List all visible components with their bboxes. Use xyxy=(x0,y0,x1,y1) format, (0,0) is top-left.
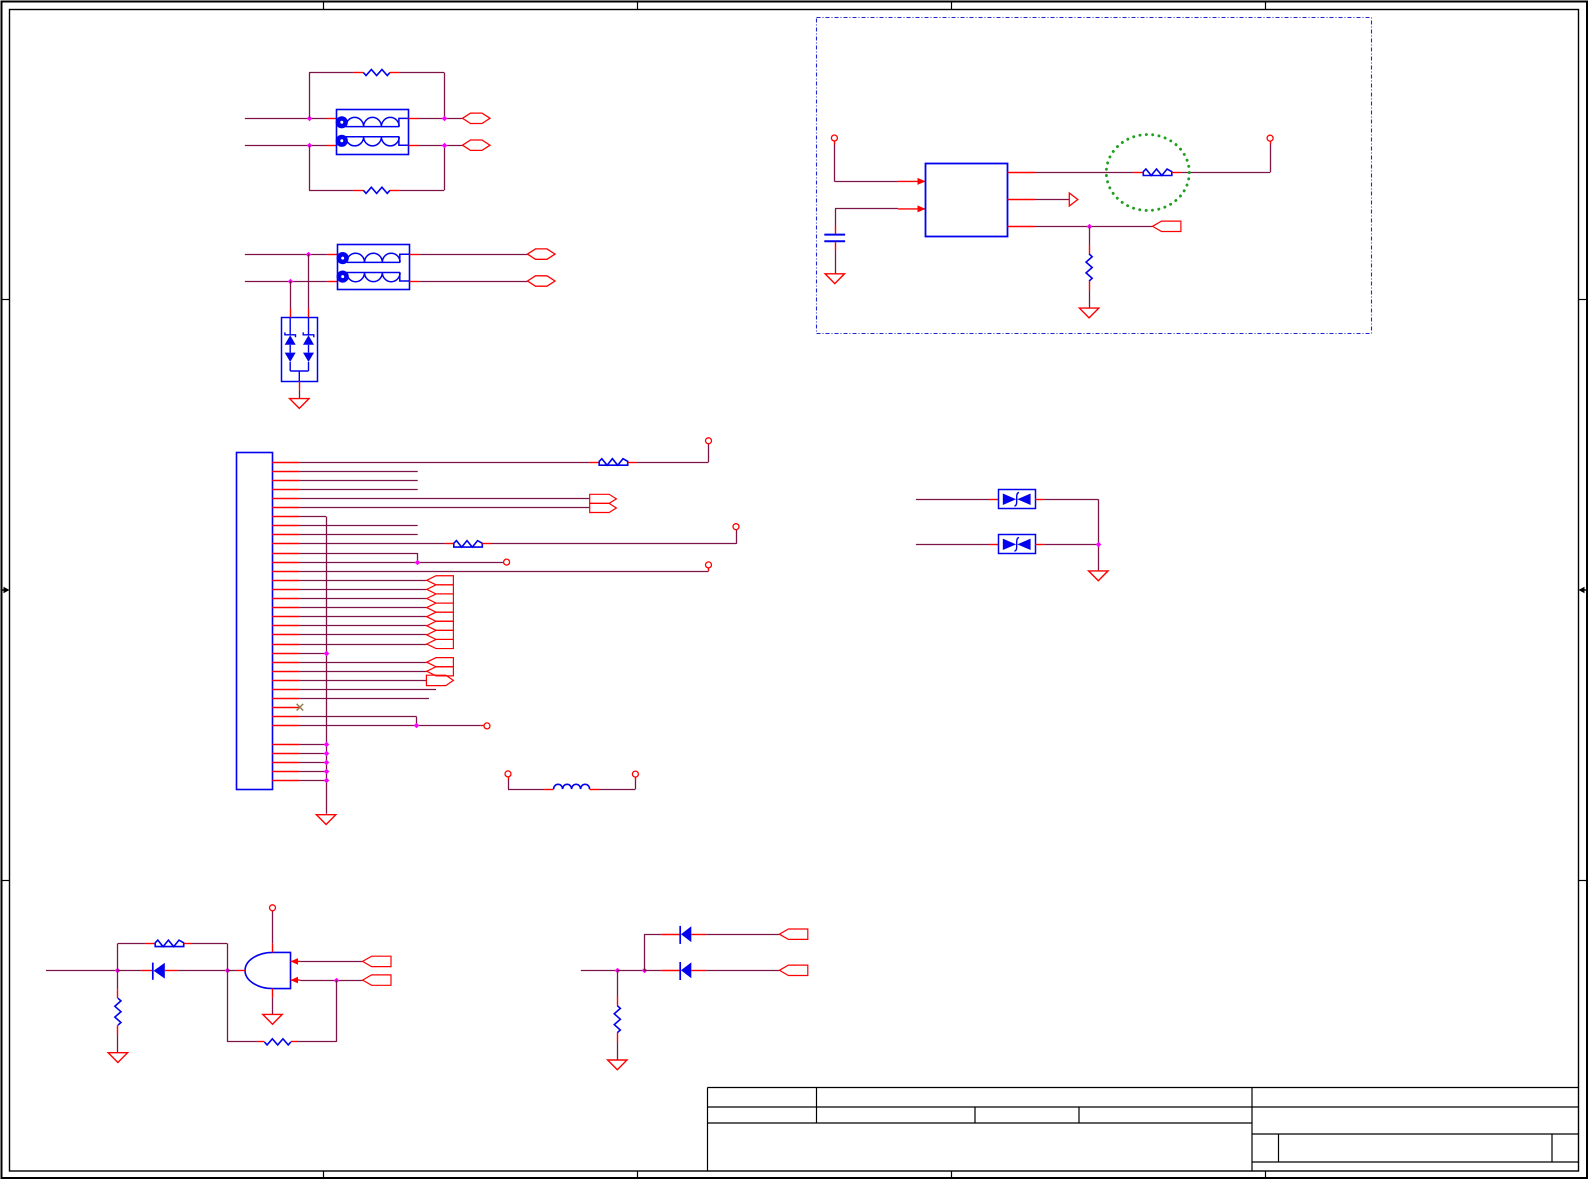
wire pin21 to flag xyxy=(300,644,427,646)
wire top rail right xyxy=(192,943,227,945)
ground (C1) xyxy=(825,274,844,284)
pin U2 in2 (arrow) xyxy=(291,977,301,984)
pin stub J1 pin35 xyxy=(272,771,300,773)
border zone tick bottom x=637.5 xyxy=(637,1171,639,1179)
wire net B1 left (top) xyxy=(245,254,328,256)
junction bus pin34 xyxy=(324,760,330,766)
wire in2 to tag xyxy=(300,980,362,982)
wire net B2 left (bottom) xyxy=(245,281,328,283)
highlight circle (green dotted) xyxy=(1106,135,1189,211)
wire TVS1 left xyxy=(916,499,989,501)
wire pin10 run xyxy=(300,543,446,545)
wire pin30 run xyxy=(300,725,481,727)
wire up to circle port xyxy=(708,444,710,462)
wire up to circle xyxy=(635,780,637,789)
wire B2 down to TVS xyxy=(290,281,292,309)
wire feedback up xyxy=(227,971,229,1042)
border zone tick bottom x=951.5 xyxy=(951,1171,953,1179)
pin stub J1 pin32 xyxy=(272,744,300,746)
wire net A2 left (bottom) xyxy=(245,145,327,147)
resistor R6 xyxy=(614,1006,620,1033)
wire to gate output xyxy=(227,970,237,972)
wire T1 out top xyxy=(419,118,463,120)
wire pin9 stub run xyxy=(300,534,418,536)
port circle gate vcc xyxy=(270,905,276,911)
port circle OUT1 xyxy=(1267,135,1273,141)
wire pin13 run xyxy=(300,571,709,573)
wire right loop lower xyxy=(444,145,446,190)
wire pin35 to bus xyxy=(300,771,326,773)
pin stub R3 top xyxy=(1089,245,1091,254)
wire pin20 to flag xyxy=(300,634,427,636)
port P3 (hexagon) xyxy=(528,249,556,259)
pin stub T1 pin1 xyxy=(327,118,337,120)
junction gate out xyxy=(225,968,231,974)
border zone tick bottom x=323.5 xyxy=(323,1171,325,1179)
pin stub J1 pin6 xyxy=(272,507,300,509)
pin stub R6 bottom xyxy=(617,1033,619,1042)
wire pin26 stub run xyxy=(300,689,436,691)
pin stub J1 pin33 xyxy=(272,753,300,755)
border center arrow right xyxy=(1579,587,1588,594)
pin stub R2 right xyxy=(390,190,399,192)
border zone tick right y=299.5 xyxy=(1579,299,1588,301)
pin stub circle gate xyxy=(272,910,274,912)
offpage flag in 3 xyxy=(427,594,454,603)
pin stub J1 pin15 xyxy=(272,589,300,591)
pin stub J1 pin4 xyxy=(272,489,300,491)
port tag net5 xyxy=(426,675,453,685)
pin stub circle K29 xyxy=(481,725,484,727)
wire gate to ground xyxy=(272,998,274,1015)
wire to D4 xyxy=(118,970,142,972)
resistor R4 xyxy=(115,998,121,1025)
transformer T1 (common-mode choke) xyxy=(336,110,409,155)
no-connect X pin28 xyxy=(297,704,304,711)
wire to D5 xyxy=(644,934,661,936)
pin U2 top xyxy=(272,943,274,952)
pin stub T2 pin2 xyxy=(327,281,337,283)
wire TVS2 left xyxy=(916,544,989,546)
pin stub C1 top xyxy=(835,226,837,234)
wire pin14 to flag xyxy=(300,580,427,582)
wire to R2 xyxy=(309,190,354,192)
pin stub J1 pin26 xyxy=(272,689,300,691)
out arrow symbol xyxy=(1069,193,1078,206)
wire pin23 to flag xyxy=(300,662,427,664)
wire pin8 stub run xyxy=(300,525,418,527)
border zone tick bottom x=1265.0 xyxy=(1265,1171,1267,1179)
port circle L1 left xyxy=(505,771,511,777)
pin stub T2 pin4 xyxy=(409,254,419,256)
diode D5 xyxy=(680,926,691,944)
wire up to top rail xyxy=(117,943,119,970)
wire to branch xyxy=(617,970,644,972)
port P2 (hexagon) xyxy=(463,140,491,150)
wire pin19 to flag xyxy=(300,625,427,627)
pin stub J1 pin14 xyxy=(272,580,300,582)
resistor R5 xyxy=(264,1039,290,1045)
pin U2 bottom xyxy=(272,989,274,998)
ground (D1) xyxy=(290,399,309,409)
pin stub D6 right xyxy=(661,970,679,972)
wire top rail down xyxy=(227,943,229,970)
wire pin2 stub run xyxy=(300,471,418,473)
TVS diode array D1 xyxy=(282,317,318,381)
pin stub T1 pin2 xyxy=(327,145,337,147)
ground (bus) xyxy=(316,815,335,825)
ground bus vertical xyxy=(326,517,328,814)
wire C1 to ground xyxy=(835,250,837,274)
port tag OUT3 xyxy=(1153,221,1181,231)
wire pin24 to flag xyxy=(300,671,427,673)
pin stub D1 pin1 xyxy=(290,309,292,318)
pin stub TVS1 right xyxy=(1035,499,1044,501)
border center arrow left xyxy=(2,587,10,594)
wire pin3 stub run xyxy=(300,480,418,482)
fuse/resistor F2 xyxy=(599,459,628,466)
wire out1 to F1 xyxy=(1035,172,1134,174)
pin stub J1 pin12 xyxy=(272,562,300,564)
wire down to L1 row xyxy=(508,780,510,789)
resistor R2 xyxy=(363,187,389,193)
pin stub J1 pin3 xyxy=(272,480,300,482)
port circle L1 right xyxy=(632,771,638,777)
wire to U1 in1 xyxy=(834,181,898,183)
offpage flag in 10 xyxy=(427,667,454,676)
offpage flag in 7 xyxy=(427,630,454,639)
pin stub F1 right xyxy=(1172,172,1181,174)
port circle net1 xyxy=(706,438,712,444)
port circle net6 xyxy=(484,723,490,729)
junction bus pin35 xyxy=(324,769,330,775)
wire D6 to tag xyxy=(706,970,779,972)
wire TVS1 to corner xyxy=(1044,499,1098,501)
junction in2/feedback xyxy=(334,978,340,984)
pin stub R5 left xyxy=(257,1041,264,1043)
pin stub U1 out1 xyxy=(1008,172,1036,174)
pin stub D5 right xyxy=(661,934,679,936)
wire D5 to tag xyxy=(706,934,779,936)
port P4 (hexagon) xyxy=(528,276,556,286)
junction branch xyxy=(642,968,648,974)
junction pin29/pin30 xyxy=(414,723,420,729)
diode D6 xyxy=(680,962,691,980)
pin stub D5 left xyxy=(691,934,706,936)
border zone tick right y=880.5 xyxy=(1579,880,1588,882)
pin stub J1 pin2 xyxy=(272,471,300,473)
pin stub TVS1 left xyxy=(989,499,998,501)
pin stub circle K11 xyxy=(503,562,505,564)
wire F1 to OUT1 xyxy=(1181,172,1270,174)
pin stub F4 right xyxy=(184,943,192,945)
pin stub R5 right xyxy=(291,1041,298,1043)
border zone tick left y=299.5 xyxy=(2,299,10,301)
wire pin27 stub run xyxy=(300,698,429,700)
wire R1 to right loop xyxy=(399,72,444,74)
pin stub J1 pin22 xyxy=(272,653,300,655)
junction bus pin36 xyxy=(324,778,330,784)
pin stub T2 pin1 xyxy=(327,254,337,256)
offpage flag in 1 xyxy=(427,576,454,585)
IC U1 xyxy=(926,164,1008,237)
pin stub J1 pin5 xyxy=(272,498,300,500)
wire gate top to circle xyxy=(272,911,274,943)
pin stub T1 pin3 xyxy=(409,145,419,147)
wire to R1 xyxy=(309,72,354,74)
wire R2 to right loop xyxy=(399,190,444,192)
wire down to R6 xyxy=(617,970,619,996)
pin stub J1 pin10 xyxy=(272,543,300,545)
wire pin25 to tag xyxy=(300,680,427,682)
wire down to C1 xyxy=(835,209,837,226)
border zone tick top x=1265.0 xyxy=(1265,2,1267,10)
pin stub J1 pin27 xyxy=(272,698,300,700)
wire net A1 left (top) xyxy=(245,118,327,120)
offpage flag in 4 xyxy=(427,603,454,612)
wire pin16 to flag xyxy=(300,598,427,600)
pin stub J1 pin7 xyxy=(272,516,300,518)
wire in1 to tag xyxy=(300,961,362,963)
offpage flag in 8 xyxy=(427,639,454,648)
resistor R3 xyxy=(1086,254,1092,281)
wire loop left lower xyxy=(309,145,311,190)
wire pin11 run xyxy=(300,553,417,555)
offpage flag in 5 xyxy=(427,612,454,621)
pin stub J1 pin21 xyxy=(272,644,300,646)
wire pin5 to flag xyxy=(300,498,590,500)
wire branch up xyxy=(644,934,646,970)
wire feedback rail left xyxy=(227,1041,257,1043)
pin U2 output xyxy=(237,970,246,972)
ground (TVS pair) xyxy=(1089,571,1108,581)
pin stub circle K12 xyxy=(708,568,710,571)
wire F3 to circle port xyxy=(491,543,736,545)
pin stub J1 pin28 xyxy=(272,707,300,709)
wire to U1 in2 xyxy=(835,208,898,210)
pin stub T2 pin3 xyxy=(409,281,419,283)
pin stub J1 pin24 xyxy=(272,671,300,673)
wire T1 out bottom xyxy=(419,145,463,147)
wire up to OUT1 xyxy=(1270,145,1272,173)
wire D1 to ground xyxy=(299,390,301,399)
fuse/resistor F3 xyxy=(454,541,483,548)
pin stub L1 right port xyxy=(635,777,637,780)
wire R4 to ground xyxy=(117,1035,119,1053)
pin stub J1 pin25 xyxy=(272,680,300,682)
pin U1 in1 (arrow) xyxy=(898,178,926,185)
wire pin11 down xyxy=(417,553,419,562)
fuse/resistor F1 xyxy=(1143,169,1172,176)
capacitor C1 xyxy=(824,235,845,242)
wire pin4 stub run xyxy=(300,489,418,491)
pin stub C1 bottom xyxy=(835,242,837,250)
wire pin29 down xyxy=(416,717,418,726)
wire right loop upper xyxy=(444,73,446,119)
port circle net4 xyxy=(706,562,712,568)
wire L1 right xyxy=(599,789,635,791)
pin stub J1 pin30 xyxy=(272,725,300,727)
pin stub R1 right xyxy=(390,72,399,74)
junction A1/loop xyxy=(307,116,313,122)
logic gate U2 (AND, mirrored) xyxy=(245,952,290,988)
wire up to circle port xyxy=(736,530,738,544)
junction in/R6 xyxy=(615,968,621,974)
pin stub D4 right xyxy=(142,970,153,972)
junction B2/TVS xyxy=(288,279,294,285)
wire pin17 to flag xyxy=(300,607,427,609)
transformer T2 (common-mode choke) xyxy=(337,245,410,290)
wire T2 out top xyxy=(419,254,527,256)
dashed function box xyxy=(817,18,1372,334)
wire pin32 to bus xyxy=(300,744,326,746)
wire out3 to tag xyxy=(1035,226,1153,228)
pin stub D6 left xyxy=(691,970,706,972)
wire pin6 to flag xyxy=(300,507,590,509)
wire D4 to gate xyxy=(177,970,227,972)
wire pin1 run xyxy=(300,462,590,464)
border zone tick top x=637.5 xyxy=(637,2,639,10)
junction out top xyxy=(442,116,448,122)
pin stub F4 left xyxy=(145,943,155,945)
pin stub J1 pin19 xyxy=(272,625,300,627)
wire F2 to circle port xyxy=(637,462,709,464)
pin stub U1 out2 xyxy=(1008,199,1036,201)
port circle net2 xyxy=(733,524,739,530)
offpage flag out B xyxy=(590,503,617,512)
wire down to R4 xyxy=(117,971,119,990)
pin stub J1 pin17 xyxy=(272,607,300,609)
pin stub R6 top xyxy=(617,997,619,1006)
wire to D6 xyxy=(644,970,661,972)
wire top rail left xyxy=(118,943,145,945)
diode D4 xyxy=(153,963,165,980)
resistor R1 xyxy=(363,69,389,75)
TVS diode D2 (bidirectional) xyxy=(999,490,1036,509)
pin stub OUT1 xyxy=(1270,141,1272,144)
pin stub F1 left xyxy=(1134,172,1144,174)
port tag BM upper xyxy=(779,929,807,939)
wire B1 down to TVS xyxy=(308,254,310,309)
connector J1 body xyxy=(237,453,273,790)
junction bus pin33 xyxy=(324,751,330,757)
pin stub R3 bottom xyxy=(1089,281,1091,290)
fuse/resistor F4 xyxy=(155,940,184,947)
wire main in BM xyxy=(581,970,618,972)
pin stub TVS2 left xyxy=(989,544,998,546)
pin stub F3 right xyxy=(482,543,491,545)
pin U2 in1 (arrow) xyxy=(291,958,301,965)
wire pin22 to bus xyxy=(300,653,326,655)
wire pin29 run xyxy=(300,716,417,718)
wire down to R3 xyxy=(1089,226,1091,245)
pin stub J1 pin11 xyxy=(272,553,300,555)
pin stub J1 pin23 xyxy=(272,662,300,664)
port tag BM lower xyxy=(779,965,807,975)
pin stub R1 left xyxy=(354,72,364,74)
pin U1 in2 (arrow) xyxy=(898,205,926,212)
pin stub L1 left xyxy=(544,789,553,791)
port tag gate in2 xyxy=(363,975,391,985)
pin stub J1 pin16 xyxy=(272,598,300,600)
border zone tick top x=951.5 xyxy=(951,2,953,10)
junction out bottom xyxy=(442,143,448,149)
wire pin36 to bus xyxy=(300,780,326,782)
ground (R6) xyxy=(608,1060,627,1070)
pin stub R2 left xyxy=(354,190,364,192)
pin stub circle K0 xyxy=(708,443,710,446)
wire R6 to ground xyxy=(617,1042,619,1060)
pin stub TVS2 right xyxy=(1035,544,1044,546)
ground (R3) xyxy=(1079,308,1098,318)
inductor L1 xyxy=(554,784,590,789)
pin stub J1 pin9 xyxy=(272,534,300,536)
ground (R4) xyxy=(108,1053,127,1063)
wire loop left upper xyxy=(309,73,311,119)
junction B1/TVS xyxy=(306,252,312,258)
wire to L1 xyxy=(508,789,544,791)
wire pin34 to bus xyxy=(300,762,326,764)
pin stub D1 pin2 xyxy=(308,309,310,318)
pin stub F3 left xyxy=(445,543,453,545)
wire R3 to ground xyxy=(1089,290,1091,308)
junction bus pin32 xyxy=(324,742,330,748)
pin stub circle K9 xyxy=(736,529,738,532)
wire pin12 run xyxy=(300,562,504,564)
junction pin11/pin12 xyxy=(415,560,421,566)
wire feedback rail right xyxy=(298,1041,336,1043)
pin stub J1 pin13 xyxy=(272,571,300,573)
pin stub J1 pin29 xyxy=(272,716,300,718)
border zone tick top x=323.5 xyxy=(323,2,325,10)
TVS diode D3 (bidirectional) xyxy=(999,535,1036,554)
pin stub J1 pin8 xyxy=(272,525,300,527)
pin stub F2 right xyxy=(628,462,637,464)
pin stub IN1 xyxy=(834,141,836,145)
wire out2 xyxy=(1035,199,1069,201)
junction TVS gnd xyxy=(1096,542,1102,548)
wire main in xyxy=(46,970,118,972)
offpage flag in 9 xyxy=(427,658,454,667)
wire pin7 to bus xyxy=(300,516,326,518)
wire TVS2 to vertical xyxy=(1044,544,1098,546)
junction out3/R3 xyxy=(1087,224,1093,230)
junction A2/loop xyxy=(307,143,313,149)
pin stub F2 left xyxy=(590,462,599,464)
port circle net3 xyxy=(504,559,510,565)
wire feedback down xyxy=(336,980,338,1042)
pin stub T1 pin4 xyxy=(409,118,419,120)
wire pin18 to flag xyxy=(300,616,427,618)
wire T2 out bottom xyxy=(419,281,527,283)
pin stub L1 left port xyxy=(508,777,510,780)
pin stub R4 bottom xyxy=(117,1025,119,1034)
pin stub U1 out3 xyxy=(1008,226,1036,228)
port P1 (hexagon) xyxy=(463,113,491,123)
pin stub L1 right xyxy=(590,789,599,791)
pin stub J1 pin20 xyxy=(272,634,300,636)
pin stub D1 gnd xyxy=(299,381,301,390)
border zone tick left y=880.5 xyxy=(2,880,10,882)
pin stub J1 pin18 xyxy=(272,616,300,618)
wire pin33 to bus xyxy=(300,753,326,755)
port tag gate in1 xyxy=(363,956,391,966)
wire IN1 down xyxy=(834,145,836,182)
pin stub D4 left xyxy=(165,970,178,972)
offpage flag out A xyxy=(590,494,617,503)
wire down to ground xyxy=(1098,499,1100,570)
junction in/R4 xyxy=(115,968,121,974)
